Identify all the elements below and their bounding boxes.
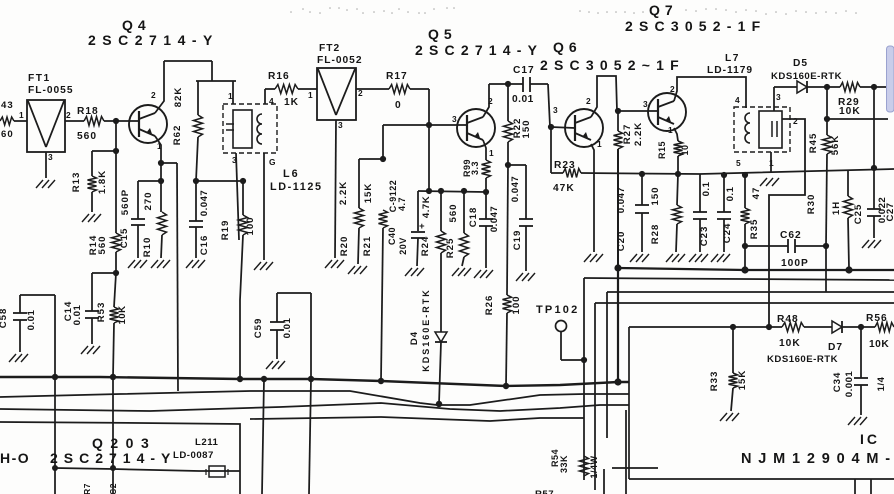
wire emitter rail [581, 169, 894, 174]
wire R21 tap [359, 125, 386, 162]
svg-text:R53: R53 [96, 302, 107, 323]
wire C17 right [530, 84, 550, 127]
scrollbar thumb [887, 46, 894, 112]
capacitor C15 [119, 181, 161, 258]
svg-text:Q203: Q203 [92, 435, 156, 451]
resistor R17 [356, 71, 429, 111]
svg-text:KDS160E-RTK: KDS160E-RTK [771, 71, 842, 82]
wire R48-D7 [804, 326, 832, 328]
svg-text:C24: C24 [722, 223, 733, 244]
node bus A 264 [261, 376, 267, 382]
svg-text:KDS160E-RTK: KDS160E-RTK [421, 288, 431, 372]
node TP102 tap [581, 357, 587, 363]
svg-text:1K: 1K [284, 97, 299, 108]
svg-text:3: 3 [643, 99, 648, 109]
svg-text:2: 2 [66, 110, 71, 120]
transistor Q4 [129, 90, 167, 151]
wire emitter branch [161, 162, 177, 164]
capacitor C18 [468, 189, 500, 268]
svg-text:H-O: H-O [0, 450, 30, 466]
svg-text:4: 4 [269, 96, 274, 106]
node bus A 113 [110, 374, 116, 380]
svg-text:+: + [419, 221, 425, 232]
svg-text:0.047: 0.047 [489, 206, 500, 233]
wire C62 net [825, 246, 827, 292]
svg-text:2: 2 [670, 84, 675, 94]
wire C16-R19 [196, 180, 243, 182]
wire Q6 collector [591, 76, 617, 117]
ground R28 [666, 254, 685, 262]
svg-text:15K: 15K [363, 183, 374, 204]
svg-text:150: 150 [521, 119, 532, 138]
capacitor C2 label [108, 483, 118, 494]
node heavy 745 [741, 266, 748, 273]
svg-text:1H: 1H [831, 201, 842, 215]
ground R10 [151, 260, 170, 268]
node Q5 base [426, 122, 432, 128]
svg-text:LD-1125: LD-1125 [270, 181, 323, 193]
svg-text:KDS160E-RTK: KDS160E-RTK [767, 354, 838, 365]
transistor Q4 label [88, 17, 219, 48]
ground C18 [474, 270, 493, 278]
wire Q5 base [383, 124, 467, 126]
svg-text:IC: IC [860, 431, 880, 447]
resistor R25 [445, 188, 469, 266]
wire rail B right [584, 278, 894, 280]
svg-text:R18: R18 [77, 106, 99, 117]
inductor L7 label [707, 53, 753, 76]
transistor Q5 label [415, 26, 543, 58]
node heavy 849 [845, 266, 852, 273]
svg-text:82K: 82K [173, 87, 184, 108]
node Q4 emitter [158, 160, 164, 166]
svg-text:D5: D5 [793, 58, 808, 69]
svg-text:D7: D7 [828, 342, 843, 353]
svg-text:R30: R30 [806, 194, 817, 215]
ground FT1 [36, 180, 55, 188]
wire rail D right [595, 302, 894, 304]
svg-text:3: 3 [452, 114, 457, 124]
capacitor C59 [253, 293, 311, 379]
capacitor C23 [693, 174, 712, 252]
svg-text:3: 3 [48, 152, 53, 162]
svg-text:10K: 10K [117, 305, 128, 324]
testpoint TP102 [536, 304, 584, 360]
svg-text:0.01: 0.01 [512, 94, 534, 105]
resistor R16 [265, 71, 317, 108]
node heavy junction [614, 264, 621, 271]
svg-text:560P: 560P [120, 189, 131, 215]
svg-text:1/4W: 1/4W [589, 455, 599, 478]
wire Q4 collector [155, 61, 164, 113]
svg-text:C27: C27 [885, 202, 894, 221]
wire vertical x55 [54, 377, 56, 494]
svg-text:10: 10 [680, 144, 690, 155]
svg-text:C18: C18 [468, 207, 479, 228]
wire L6 pin5 [263, 153, 265, 260]
node Q7 base node [615, 108, 621, 114]
svg-text:FL-0052: FL-0052 [317, 55, 363, 66]
svg-text:560: 560 [448, 203, 459, 222]
svg-text:0: 0 [395, 100, 401, 111]
resistor R56 [866, 313, 894, 350]
svg-text:47: 47 [751, 187, 762, 200]
node D7 cathode [858, 324, 864, 330]
resistor R71 label [82, 483, 92, 494]
node R22 bottom [505, 162, 511, 168]
inductor L211 [206, 466, 228, 477]
svg-text:2.2K: 2.2K [338, 181, 349, 205]
node Q4 base junction [113, 118, 119, 124]
svg-text:4: 4 [735, 95, 740, 105]
resistor R48 [777, 314, 804, 349]
ic box outline [629, 327, 894, 479]
transistor Q203 label [50, 435, 176, 466]
wire Q4 emitter [155, 136, 161, 181]
resistor R14 [88, 121, 121, 273]
ground R20 [348, 266, 367, 274]
svg-text:1.8K: 1.8K [97, 170, 108, 194]
svg-text:Q5: Q5 [428, 26, 457, 42]
wire FT2 pin3 [335, 120, 336, 258]
node bus A 506 [503, 383, 509, 389]
ground C20 [630, 254, 649, 262]
svg-text:C25: C25 [853, 204, 864, 225]
filter FT2 label [317, 43, 363, 66]
svg-text:R16: R16 [268, 71, 290, 82]
svg-text:5: 5 [736, 158, 741, 168]
ground R13 [82, 214, 101, 222]
wire L6 pin3 [236, 153, 239, 240]
capacitor C62 [745, 230, 826, 269]
wire C58 to bus [54, 295, 56, 377]
transistor Q7 [643, 84, 686, 135]
wire heavy rail [618, 268, 894, 270]
svg-text:2SC3052~1F: 2SC3052~1F [540, 57, 685, 73]
node C17 left [505, 81, 511, 87]
svg-text:2SC2714-Y: 2SC2714-Y [88, 32, 219, 48]
ground R25 [452, 268, 471, 276]
wire R48 rail [629, 324, 782, 330]
capacitor C27 label [877, 197, 894, 224]
svg-text:0.01: 0.01 [282, 318, 293, 339]
svg-text:C34: C34 [832, 372, 843, 393]
resistor R18 [65, 106, 139, 142]
svg-text:D4: D4 [409, 331, 420, 345]
filter FT1 [27, 100, 65, 162]
svg-text:4.7K: 4.7K [421, 196, 432, 218]
wire rail C right [607, 291, 894, 293]
svg-text:R15: R15 [657, 141, 667, 159]
svg-text:C19: C19 [512, 230, 523, 251]
resistor R53 [96, 273, 128, 377]
resistor R99 Q5 emitter [462, 140, 491, 192]
resistor R23 [551, 127, 581, 194]
svg-text:C58: C58 [0, 308, 9, 329]
ground C40 [405, 268, 424, 276]
svg-text:1: 1 [308, 90, 313, 100]
wire R17 to base [428, 89, 430, 125]
svg-text:15K: 15K [737, 370, 748, 391]
wire FT1 pin3 [45, 152, 47, 178]
svg-text:R19: R19 [220, 220, 231, 241]
wire collector top [489, 83, 523, 85]
resistor R29 [827, 83, 874, 118]
inductor L6 pin1 wire [228, 81, 233, 104]
svg-text:0.1: 0.1 [701, 181, 712, 196]
svg-text:Q7: Q7 [649, 2, 678, 18]
wire R45 top [824, 87, 888, 122]
svg-text:C2: C2 [108, 483, 118, 494]
svg-text:R45: R45 [808, 133, 819, 154]
svg-text:LD-1179: LD-1179 [707, 65, 753, 76]
node bus A 240 [237, 376, 243, 382]
diode D4 [409, 288, 447, 404]
resistor R24 [420, 188, 446, 332]
svg-text:1: 1 [668, 125, 673, 135]
svg-text:1: 1 [19, 110, 24, 120]
svg-text:0.047: 0.047 [199, 190, 210, 217]
svg-text:0.047: 0.047 [510, 176, 521, 203]
svg-text:C40: C40 [387, 227, 397, 245]
capacitor C16 [189, 178, 210, 258]
wire Q203 rail [55, 468, 240, 471]
wire L6 pin4 [264, 89, 266, 104]
svg-text:2: 2 [793, 116, 798, 126]
wire L7 pin2 [769, 119, 805, 327]
svg-text:0.01: 0.01 [72, 305, 83, 326]
resistor R19 [220, 178, 256, 379]
wire Q5 collector [483, 84, 489, 117]
resistor R13 [71, 148, 119, 212]
wire stub bottom [604, 468, 871, 494]
inductor L6 [223, 96, 277, 167]
svg-text:R24: R24 [420, 236, 431, 257]
wire Q7 base [618, 110, 658, 112]
node bus A 311 [308, 376, 314, 382]
connector label -O [0, 450, 30, 466]
svg-text:C15: C15 [119, 228, 130, 249]
ground Q6 emitter [584, 254, 603, 262]
ground C15 [128, 260, 147, 268]
wire vertical x264 [262, 379, 264, 494]
ground R33 [720, 413, 739, 421]
wire R22-C19 [508, 164, 526, 166]
capacitor C58 [0, 295, 55, 352]
ground L6 [254, 262, 273, 270]
wire box feed left B [0, 0, 1, 1]
capacitor C14 [63, 273, 99, 344]
svg-text:1/4: 1/4 [876, 376, 887, 391]
node R29 right [871, 84, 877, 90]
svg-text:4.7: 4.7 [397, 197, 407, 211]
resistor R20 [338, 159, 364, 264]
node C40 top [426, 188, 432, 194]
transistor Q5 [452, 96, 495, 158]
svg-text:C20: C20 [616, 231, 627, 252]
resistor R15 Q7 emitter [657, 128, 690, 174]
node bus A 618 [614, 378, 621, 385]
svg-text:Q6: Q6 [553, 39, 582, 55]
ground C19 [516, 273, 535, 281]
svg-text:R27: R27 [622, 124, 633, 145]
svg-text:R25: R25 [445, 238, 456, 259]
svg-text:C23: C23 [699, 226, 710, 247]
node D5 cathode [824, 84, 830, 90]
filter FT2 [317, 68, 363, 130]
resistor R26 [484, 165, 522, 386]
svg-text:56K: 56K [830, 135, 841, 156]
ic U1 name [741, 431, 894, 467]
svg-text:R20: R20 [339, 236, 350, 257]
ground L7 [760, 178, 779, 186]
svg-text:100: 100 [511, 295, 522, 314]
ground C16 [186, 260, 205, 268]
svg-text:FL-0055: FL-0055 [28, 85, 74, 96]
wire bus C [0, 403, 629, 411]
resistor R22 [504, 84, 533, 165]
svg-text:L211: L211 [195, 437, 219, 448]
svg-text:LD-0087: LD-0087 [173, 450, 214, 461]
svg-text:10K: 10K [779, 338, 801, 349]
svg-text:0.001: 0.001 [844, 371, 855, 398]
wire bus A [0, 377, 629, 386]
resistor R10 [142, 178, 167, 258]
capacitor C34 [832, 327, 868, 415]
wire Q6 base [551, 127, 575, 128]
svg-text:L6: L6 [283, 168, 300, 180]
svg-text:R35: R35 [749, 219, 760, 240]
node bus A 381 [378, 378, 384, 384]
ground C34 [848, 417, 867, 425]
svg-text:C17: C17 [513, 65, 535, 76]
svg-text:3: 3 [338, 120, 343, 130]
svg-text:560: 560 [97, 235, 108, 254]
svg-text:43: 43 [1, 100, 14, 111]
wire bus D [0, 422, 240, 494]
scan noise dots [290, 7, 857, 15]
capacitor C40 [387, 180, 425, 266]
diode D7 [767, 321, 843, 365]
svg-text:FT2: FT2 [319, 43, 340, 54]
diode D5 [771, 58, 842, 93]
transistor Q7 label [625, 2, 766, 34]
wire long vertical x177 [177, 163, 178, 391]
svg-text:3: 3 [553, 105, 558, 115]
svg-text:2SC3052-1F: 2SC3052-1F [625, 18, 766, 34]
svg-text:C59: C59 [253, 318, 264, 339]
node bus B D4 [436, 401, 442, 407]
wire vertical V584 [583, 278, 585, 480]
resistor R45 [808, 119, 841, 246]
svg-text:0.1: 0.1 [725, 186, 736, 201]
wire vertical x311 [309, 379, 311, 494]
wire D7 right [842, 326, 875, 328]
capacitor C20 [616, 171, 649, 252]
transistor Q6 label [540, 39, 685, 73]
svg-text:Q4: Q4 [122, 17, 151, 33]
wire C14 branch [92, 272, 116, 274]
svg-text:100P: 100P [781, 258, 809, 269]
svg-text:2: 2 [151, 90, 156, 100]
inductor L7 [734, 92, 798, 168]
svg-text:G: G [269, 157, 276, 167]
svg-text:10K: 10K [869, 339, 889, 350]
ground C58 [9, 354, 28, 362]
wire to edge [874, 86, 887, 88]
filter FT1 label [28, 73, 74, 96]
resistor R21 [362, 183, 388, 381]
wire L7 pin1 [770, 152, 772, 172]
svg-text:150: 150 [650, 186, 661, 205]
svg-text:3.3: 3.3 [470, 161, 480, 175]
capacitor C25 [853, 87, 881, 238]
svg-text:R23: R23 [554, 160, 576, 171]
node R35 bottom [742, 243, 748, 249]
wire vertical heavy V618 [617, 268, 619, 382]
node Q203 55 [52, 465, 58, 471]
resistor R33 [709, 327, 748, 411]
resistor R27 [614, 111, 645, 268]
capacitor C24 [717, 172, 736, 252]
node bus A 55 [52, 374, 58, 380]
svg-text:L7: L7 [725, 53, 740, 64]
svg-text:FT1: FT1 [28, 73, 51, 84]
wire vertical V626 [625, 410, 627, 494]
capacitor C17 [512, 65, 535, 105]
node C25 tap [871, 165, 877, 171]
svg-text:60: 60 [1, 129, 14, 140]
svg-text:C16: C16 [199, 235, 210, 256]
inductor L6 name [270, 168, 323, 193]
ground C24 [711, 254, 730, 262]
svg-text:R7: R7 [82, 483, 92, 494]
svg-text:R62: R62 [172, 125, 183, 146]
node Q6 base [548, 124, 554, 130]
svg-text:33K: 33K [559, 455, 569, 473]
svg-text:1: 1 [489, 148, 494, 158]
ground FT2 [325, 260, 344, 268]
svg-text:10K: 10K [839, 106, 861, 117]
svg-text:1: 1 [597, 139, 602, 149]
node R14 bottom [113, 270, 119, 276]
svg-text:1: 1 [228, 91, 233, 101]
svg-text:TP102: TP102 [536, 304, 579, 316]
svg-text:R10: R10 [142, 237, 153, 258]
wire R35 heavy tap [744, 246, 746, 269]
capacitor C30 label [876, 376, 887, 391]
wire Q4 top loop [164, 61, 212, 81]
svg-text:3: 3 [776, 92, 781, 102]
ground C25 [862, 240, 881, 248]
resistor R54 [550, 449, 599, 479]
node Q203 113 [110, 465, 116, 471]
svg-text:0.01: 0.01 [26, 310, 37, 331]
svg-text:R21: R21 [362, 236, 373, 257]
svg-text:R17: R17 [386, 71, 408, 82]
wire base-bias [428, 125, 430, 191]
wire Q7 collector [674, 77, 746, 108]
svg-text:2SC2714-Y: 2SC2714-Y [50, 450, 176, 466]
wire bias rail [418, 191, 486, 192]
svg-text:C62: C62 [780, 230, 802, 241]
wire vertical V607 [606, 292, 608, 438]
svg-text:R13: R13 [71, 172, 82, 193]
wire Q6 emitter [591, 144, 594, 252]
resistor R43 input stub [0, 100, 27, 140]
inductor 1H [831, 171, 853, 268]
ground C23 [689, 254, 708, 262]
